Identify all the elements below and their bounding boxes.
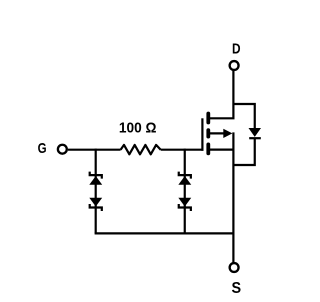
transistor Q1 bottom channel bar (source) [206, 144, 210, 153]
svg-text:G: G [38, 140, 47, 157]
wire body diode branch top [233, 104, 254, 129]
body diode D5 (cathode down) [249, 128, 262, 137]
svg-text:D: D [232, 40, 241, 57]
node S terminal circle [230, 263, 239, 272]
wire gate from G to resistor [68, 149, 121, 151]
svg-text:100 Ω: 100 Ω [119, 119, 157, 135]
zener diode chain 2 wire (vertical) [184, 149, 186, 234]
svg-text:S: S [232, 280, 242, 298]
wire bottom rail [95, 232, 234, 234]
zener diode D3 (chain 2 top, cathode up) [178, 176, 191, 185]
zener diode chain 1 wire (vertical) [95, 149, 97, 234]
wire body diode branch bottom [233, 138, 254, 165]
zener diode D4 (chain 2 bottom, cathode down) [178, 198, 191, 207]
transistor Q1 gate bar [201, 118, 203, 151]
node G terminal circle [58, 145, 67, 154]
transistor Q1 body arrow (pointing right) [208, 132, 224, 134]
node D terminal circle [230, 61, 239, 70]
wire gate from resistor to MOSFET gate [161, 149, 204, 151]
zener diode D1 (chain 1 top, cathode up) [89, 176, 102, 185]
zener diode D2 (chain 1 bottom, cathode down) [89, 198, 102, 207]
transistor Q1 middle channel bar (body) [206, 130, 210, 136]
resistor R1 100 ohm zigzag [121, 145, 161, 154]
wire drain: bar to vertical, up to D [208, 71, 233, 119]
transistor Q1 top channel bar (drain) [206, 114, 210, 123]
wire source: bar to vertical, down to S [208, 132, 233, 262]
